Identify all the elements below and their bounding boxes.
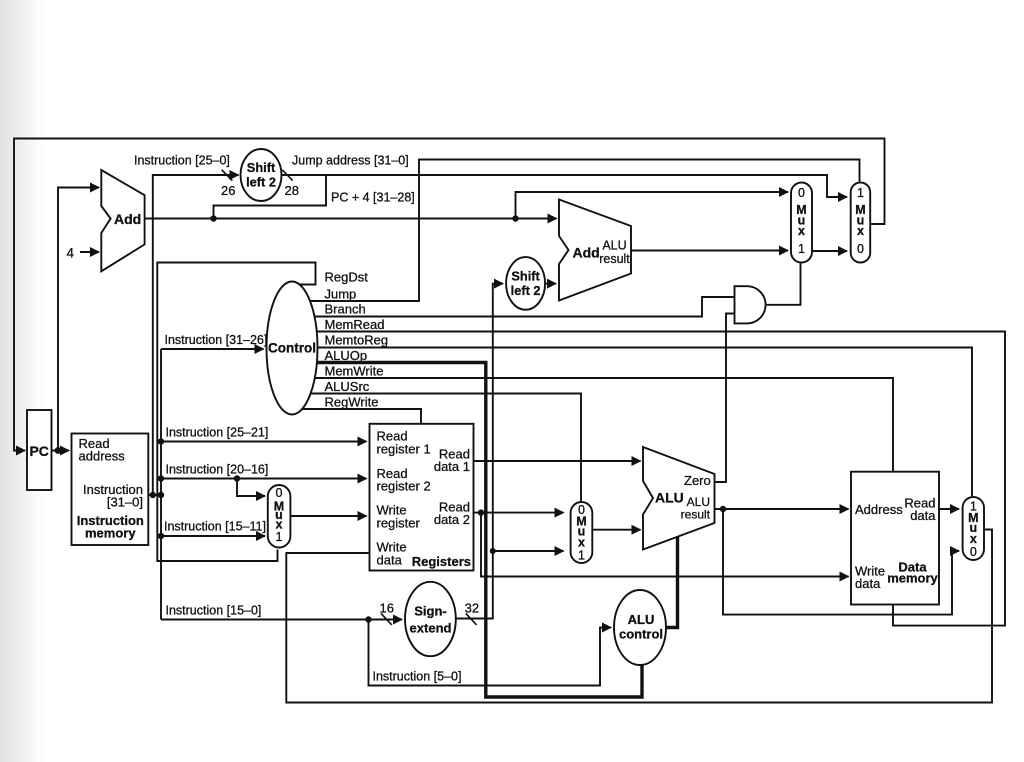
adder Add2 branch target xyxy=(559,200,631,301)
svg-text:data: data xyxy=(855,576,881,591)
svg-text:PC: PC xyxy=(29,443,48,459)
svg-text:1: 1 xyxy=(857,186,864,200)
svg-text:control: control xyxy=(619,627,663,642)
wire read data 1 to ALU xyxy=(474,460,641,462)
junction dot instruction 15-11 xyxy=(158,533,164,539)
AND gate xyxy=(735,286,766,323)
junction dot instruction bus a xyxy=(150,492,156,498)
shift left 2 oval top xyxy=(241,149,282,201)
svg-text:memory: memory xyxy=(85,525,136,540)
wire jump address [31-0] to jump Mux input 1 xyxy=(282,175,848,197)
svg-text:Add: Add xyxy=(573,245,600,261)
wire PC+4 to branch Mux input 0 xyxy=(516,192,789,219)
junction dot instruction bus b xyxy=(158,492,164,498)
junction dot PC output xyxy=(55,447,62,454)
svg-text:Control: Control xyxy=(268,341,316,356)
mux M2 jump xyxy=(851,183,871,263)
svg-text:address: address xyxy=(79,449,126,464)
shift left 2 oval branch xyxy=(506,257,545,310)
wire ALUSrc control signal to Mux4 xyxy=(311,394,581,502)
slash 28 bits xyxy=(282,170,293,181)
svg-text:ALUOp: ALUOp xyxy=(325,348,368,363)
junction dot ALU result xyxy=(720,506,726,512)
wire Instruction [5-0] to ALU control xyxy=(369,620,612,686)
wire MemRead control signal to data memory xyxy=(317,332,1005,626)
svg-text:Instruction [20–16]: Instruction [20–16] xyxy=(166,463,269,477)
control unit oval xyxy=(267,282,318,415)
svg-text:Instruction [25–21]: Instruction [25–21] xyxy=(166,426,269,440)
wire sign extend output to Mux4 input 1 xyxy=(493,550,564,552)
wire Mux3 output write-back to registers write data xyxy=(286,530,992,703)
svg-text:result: result xyxy=(599,252,630,266)
svg-text:memory: memory xyxy=(887,571,938,586)
wire Zero output to AND gate xyxy=(715,314,734,483)
svg-text:data 2: data 2 xyxy=(434,512,470,527)
wire constant 4 into Add1 xyxy=(80,251,99,253)
svg-text:result: result xyxy=(681,508,711,522)
wire shift left 2 output to Add2 xyxy=(545,283,556,285)
data memory box xyxy=(851,472,939,605)
wire RegWrite control signal to registers xyxy=(302,409,421,423)
svg-text:Registers: Registers xyxy=(412,554,471,569)
junction dot read data 2 xyxy=(478,509,484,515)
svg-text:Instruction [15–11]: Instruction [15–11] xyxy=(164,520,266,534)
junction dot PC+4 concat xyxy=(210,215,216,221)
wire PC up to Add1 input xyxy=(58,188,99,451)
svg-text:ALU: ALU xyxy=(655,490,684,506)
wire ALU result bypass to Mux3 input 0 xyxy=(723,509,959,615)
wire instruction memory output stub xyxy=(148,494,161,496)
wire Branch control signal to AND gate xyxy=(315,297,734,317)
slash 26 bits xyxy=(222,170,233,181)
wire Instruction [31-26] into Control xyxy=(161,348,264,350)
svg-text:ALUSrc: ALUSrc xyxy=(325,379,370,394)
wire ALU control output thick to ALU xyxy=(666,537,678,628)
wire Instruction [25-0] to shift left 2 xyxy=(153,175,239,495)
junction dot instruction 25-21 xyxy=(158,438,164,444)
wire sign extend output up to shift left 2 xyxy=(456,284,503,619)
svg-text:1: 1 xyxy=(798,242,805,256)
svg-text:x: x xyxy=(578,536,585,550)
mux M3 memtoreg xyxy=(963,497,984,560)
instruction memory box xyxy=(72,434,149,546)
svg-text:Instruction [5–0]: Instruction [5–0] xyxy=(373,670,462,684)
svg-text:Instruction [25–0]: Instruction [25–0] xyxy=(134,154,230,168)
svg-text:data: data xyxy=(377,552,403,567)
svg-text:Address: Address xyxy=(855,502,903,517)
sign extend oval xyxy=(405,582,456,656)
ALU main xyxy=(643,447,715,550)
wire read data 2 to Mux4 input 0 xyxy=(474,512,564,514)
svg-text:[31–0]: [31–0] xyxy=(107,495,143,510)
wire Instruction [20-16] to read register 2 xyxy=(161,478,367,480)
svg-text:RegWrite: RegWrite xyxy=(325,395,379,410)
wire PC to instruction memory read address xyxy=(52,450,70,452)
wire Instruction [25-21] to read register 1 xyxy=(161,441,367,443)
wire Jump control signal xyxy=(310,160,860,302)
svg-text:4: 4 xyxy=(67,246,75,261)
wire Instruction [15-11] to Mux5 input 1 xyxy=(161,535,265,537)
svg-text:Add: Add xyxy=(114,211,141,227)
ALU control oval xyxy=(614,590,666,665)
svg-text:extend: extend xyxy=(410,620,452,635)
mux M4 alusrc xyxy=(571,502,593,563)
svg-text:data 1: data 1 xyxy=(434,459,470,474)
svg-text:left 2: left 2 xyxy=(511,283,541,298)
wire ALU result to data memory address xyxy=(715,508,849,510)
wire Add2 ALU result to Mux1 input 1 xyxy=(631,250,788,252)
svg-text:Shift: Shift xyxy=(511,269,540,284)
svg-text:Sign-: Sign- xyxy=(414,603,447,618)
svg-text:MemWrite: MemWrite xyxy=(325,364,384,379)
svg-text:0: 0 xyxy=(798,186,805,200)
svg-text:Jump: Jump xyxy=(325,287,357,302)
wire Instruction [15-0] to sign extend xyxy=(161,619,402,621)
wire Mux1 output to Mux2 input 0 xyxy=(812,250,847,252)
registers box xyxy=(370,424,474,571)
wire read data 2 to data memory write data xyxy=(481,513,849,577)
junction dot instruction 15-0 xyxy=(365,616,371,622)
svg-text:MemtoReg: MemtoReg xyxy=(325,333,389,348)
wire Add1 output PC+4 xyxy=(145,218,557,220)
svg-text:Shift: Shift xyxy=(247,160,276,175)
svg-text:data: data xyxy=(910,508,936,523)
svg-text:16: 16 xyxy=(380,600,394,615)
register PC xyxy=(27,410,52,490)
svg-text:26: 26 xyxy=(221,183,235,198)
svg-text:0: 0 xyxy=(857,242,864,256)
wire PC feedback loop from jump Mux output to PC input xyxy=(14,139,885,451)
svg-text:Instruction [15–0]: Instruction [15–0] xyxy=(166,604,262,618)
slash 16 bits xyxy=(381,613,392,625)
svg-text:1: 1 xyxy=(578,549,585,563)
svg-text:MemRead: MemRead xyxy=(325,317,385,332)
wire MemtoReg control signal to Mux3 xyxy=(318,348,973,497)
svg-text:28: 28 xyxy=(285,183,299,198)
svg-text:x: x xyxy=(970,532,977,546)
wire MemWrite control signal to data memory xyxy=(315,378,893,471)
wire AND gate output to Mux1 select xyxy=(766,264,801,305)
svg-text:PC + 4 [31–28]: PC + 4 [31–28] xyxy=(331,191,415,205)
wire RegDst control signal loop to Mux5 xyxy=(157,263,315,562)
svg-text:Zero: Zero xyxy=(684,473,711,488)
svg-text:32: 32 xyxy=(465,600,479,615)
svg-text:register 2: register 2 xyxy=(377,479,431,494)
svg-text:register 1: register 1 xyxy=(377,442,431,457)
svg-text:ALU: ALU xyxy=(628,612,655,627)
junction dot mux5 feed xyxy=(234,475,240,481)
svg-text:Instruction [31–26]: Instruction [31–26] xyxy=(165,333,268,347)
svg-text:RegDst: RegDst xyxy=(325,270,369,285)
wire ALUOp control signal thick to ALU control xyxy=(317,363,642,698)
svg-text:1: 1 xyxy=(276,530,283,544)
wire PC+4 [31-28] concat up to jump address line xyxy=(214,175,327,219)
mux M1 branch xyxy=(791,183,812,263)
svg-text:Branch: Branch xyxy=(325,302,366,317)
wire Mux5 output to write register xyxy=(290,515,366,517)
svg-text:x: x xyxy=(857,224,864,238)
slash 32 bits xyxy=(466,613,477,625)
wire instruction bus vertical xyxy=(160,349,162,620)
svg-text:ALU: ALU xyxy=(602,239,626,253)
adder Add1 xyxy=(101,170,144,271)
svg-text:left 2: left 2 xyxy=(246,174,276,189)
mux M5 regdst xyxy=(268,485,291,548)
svg-text:Jump address [31–0]: Jump address [31–0] xyxy=(292,154,409,168)
svg-text:0: 0 xyxy=(970,545,977,559)
junction dot instruction 20-16 xyxy=(158,475,164,481)
junction dot sign extend out xyxy=(490,548,496,554)
wire Mux4 output to ALU xyxy=(592,529,640,531)
wire data memory read data to Mux3 input 1 xyxy=(939,508,959,510)
svg-text:0: 0 xyxy=(276,486,283,500)
junction dot PC+4 branch mux xyxy=(512,215,518,221)
svg-text:register: register xyxy=(377,515,421,530)
wire Instruction [20-16] branch to Mux5 input 0 xyxy=(237,479,265,497)
svg-text:x: x xyxy=(798,224,805,238)
